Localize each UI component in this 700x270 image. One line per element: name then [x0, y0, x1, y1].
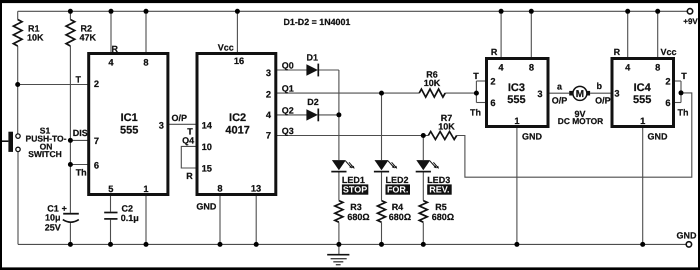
svg-text:GND: GND: [522, 132, 543, 142]
svg-text:b: b: [596, 81, 602, 91]
svg-text:10K: 10K: [438, 122, 455, 132]
svg-text:IC1: IC1: [121, 112, 138, 124]
svg-text:O/P: O/P: [595, 96, 611, 106]
svg-text:15: 15: [202, 164, 212, 174]
svg-text:8: 8: [529, 62, 534, 72]
svg-text:O/P: O/P: [552, 96, 568, 106]
svg-text:10K: 10K: [27, 33, 44, 43]
svg-text:Th: Th: [76, 167, 87, 177]
svg-text:Q3: Q3: [282, 126, 294, 136]
svg-text:1: 1: [640, 116, 645, 126]
svg-text:DC MOTOR: DC MOTOR: [558, 116, 603, 126]
svg-text:13: 13: [251, 183, 261, 193]
svg-text:STOP: STOP: [343, 185, 367, 195]
svg-text:SWITCH: SWITCH: [28, 149, 62, 159]
svg-text:8: 8: [143, 58, 148, 68]
svg-text:680Ω: 680Ω: [347, 212, 369, 222]
svg-text:2: 2: [490, 76, 495, 86]
svg-text:0.1μ: 0.1μ: [121, 213, 139, 223]
svg-text:3: 3: [614, 89, 619, 99]
svg-text:8: 8: [655, 62, 660, 72]
svg-text:8: 8: [217, 183, 222, 193]
svg-text:IC3: IC3: [508, 82, 525, 94]
svg-text:555: 555: [633, 94, 651, 106]
svg-text:2: 2: [665, 76, 670, 86]
svg-text:IC2: IC2: [229, 112, 246, 124]
svg-text:7: 7: [266, 131, 271, 141]
svg-text:LED1: LED1: [342, 175, 365, 185]
svg-text:D1-D2 = 1N4001: D1-D2 = 1N4001: [284, 17, 351, 27]
svg-text:4: 4: [625, 62, 631, 72]
svg-text:4017: 4017: [225, 125, 249, 137]
svg-text:Q2: Q2: [282, 105, 294, 115]
svg-text:2: 2: [94, 79, 99, 89]
svg-text:Q0: Q0: [282, 61, 294, 71]
svg-text:M: M: [576, 89, 584, 100]
svg-text:Q4: Q4: [182, 135, 194, 145]
svg-text:R4: R4: [392, 202, 404, 212]
svg-text:Th: Th: [470, 108, 481, 118]
svg-text:4: 4: [266, 110, 272, 120]
svg-text:GND: GND: [196, 202, 217, 212]
svg-text:3: 3: [266, 68, 271, 78]
svg-text:10K: 10K: [424, 78, 441, 88]
svg-text:a: a: [557, 81, 563, 91]
svg-text:16: 16: [234, 56, 244, 66]
svg-text:1: 1: [143, 184, 148, 194]
svg-text:IC4: IC4: [634, 82, 652, 94]
svg-text:4: 4: [498, 62, 504, 72]
svg-text:T: T: [473, 71, 479, 81]
svg-text:1: 1: [514, 116, 519, 126]
svg-text:7: 7: [94, 136, 99, 146]
svg-text:680Ω: 680Ω: [389, 212, 411, 222]
svg-text:680Ω: 680Ω: [432, 212, 454, 222]
svg-text:+9V: +9V: [683, 17, 698, 26]
svg-text:25V: 25V: [45, 222, 61, 232]
svg-text:Vcc: Vcc: [661, 47, 677, 57]
svg-text:DIS: DIS: [73, 128, 88, 138]
svg-text:5: 5: [108, 184, 113, 194]
svg-text:Q1: Q1: [282, 84, 294, 94]
svg-text:47K: 47K: [80, 33, 97, 43]
svg-text:+: +: [62, 203, 67, 213]
svg-text:D2: D2: [307, 97, 319, 107]
svg-text:Vcc: Vcc: [218, 42, 234, 52]
svg-text:O/P: O/P: [172, 113, 188, 123]
svg-text:2: 2: [266, 89, 271, 99]
svg-text:R: R: [186, 171, 193, 181]
svg-text:3: 3: [537, 89, 542, 99]
svg-text:6: 6: [94, 160, 99, 170]
svg-text:R3: R3: [350, 202, 362, 212]
svg-text:T: T: [76, 75, 82, 85]
svg-text:T: T: [681, 71, 687, 81]
svg-text:Th: Th: [678, 108, 689, 118]
svg-text:GND: GND: [648, 132, 669, 142]
svg-text:GND: GND: [677, 231, 698, 241]
svg-text:R: R: [614, 47, 621, 57]
svg-text:R: R: [491, 47, 498, 57]
svg-text:R: R: [112, 44, 119, 54]
svg-text:6: 6: [490, 98, 495, 108]
svg-text:3: 3: [159, 121, 164, 131]
svg-text:LED2: LED2: [386, 175, 409, 185]
svg-text:FOR.: FOR.: [387, 185, 409, 195]
svg-text:LED3: LED3: [427, 175, 450, 185]
svg-text:10μ: 10μ: [45, 213, 61, 223]
svg-text:C2: C2: [122, 204, 134, 214]
svg-text:555: 555: [507, 94, 525, 106]
svg-text:14: 14: [202, 120, 213, 130]
svg-text:4: 4: [108, 58, 114, 68]
svg-text:10: 10: [202, 142, 212, 152]
svg-text:6: 6: [665, 98, 670, 108]
svg-text:R5: R5: [435, 202, 447, 212]
svg-text:555: 555: [120, 125, 138, 137]
svg-text:REV.: REV.: [429, 185, 449, 195]
svg-text:D1: D1: [307, 52, 319, 62]
